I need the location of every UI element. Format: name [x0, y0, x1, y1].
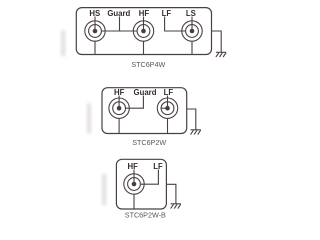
wire box 3 to earth: [166, 184, 176, 204]
connector HS (triax): [85, 21, 105, 41]
wire LF center pin tied to LF inner shield: [161, 107, 167, 109]
svg-text:HF: HF: [139, 9, 150, 18]
artifact ghost bar left of box 1: [61, 31, 65, 57]
wire HF label stem to center pin (box 2): [118, 96, 120, 109]
wire HF label stem to center pin: [143, 17, 145, 32]
connector HF (triax): [133, 21, 153, 41]
svg-text:Guard: Guard: [134, 88, 157, 97]
connector HF (box 2, triax): [109, 98, 129, 118]
svg-text:STC6P2W-B: STC6P2W-B: [125, 211, 166, 220]
svg-text:LF: LF: [153, 162, 163, 171]
wire LF label stem to HF inner shield (box 3): [140, 170, 158, 185]
ground symbol 1: [216, 52, 226, 57]
enclosure box STC6P2W: [102, 88, 187, 134]
svg-text:STC6P4W: STC6P4W: [131, 60, 165, 69]
svg-text:LS: LS: [186, 9, 196, 18]
svg-text:LF: LF: [164, 88, 174, 97]
enclosure box STC6P2W-B: [116, 159, 166, 209]
wire LF label stem to center pin (box 2): [167, 96, 169, 109]
wire HS outer shield to chassis: [94, 41, 96, 54]
wire Guard label stem to HF inner shield (box 2): [125, 96, 143, 109]
svg-text:HS: HS: [89, 9, 100, 18]
enclosure box STC6P4W: [76, 8, 211, 55]
svg-text:HF: HF: [114, 88, 125, 97]
ground symbol 3: [171, 204, 181, 209]
wire box 1 to earth: [212, 31, 222, 52]
svg-text:Guard: Guard: [107, 9, 130, 18]
ground symbol 2: [191, 130, 201, 135]
wire HF label stem to center pin (box 3): [133, 170, 135, 185]
connector LS (triax): [182, 21, 202, 41]
wire guard net HS inner shield to HF inner shield: [101, 30, 137, 32]
wire LS outer shield to chassis: [191, 41, 193, 54]
svg-text:HF: HF: [127, 162, 138, 171]
connector LF (box 2, triax): [157, 98, 177, 118]
wire HF outer shield to chassis: [143, 41, 145, 54]
wire HS label stem to center pin: [94, 17, 96, 32]
connector HF (box 3, triax): [124, 174, 144, 194]
svg-text:LF: LF: [162, 9, 172, 18]
wire box 2 to earth: [187, 109, 196, 130]
wire LF label stem to LS inner shield: [165, 17, 186, 32]
svg-text:STC6P2W: STC6P2W: [132, 138, 166, 147]
artifact ghost bar left of box 3: [102, 174, 106, 205]
wire LS label stem to center pin: [191, 17, 193, 32]
artifact ghost bar left of box 2: [87, 104, 91, 134]
wire LF outer shield to chassis (box 2): [167, 118, 169, 133]
wire Guard label stem: [119, 17, 121, 32]
wire HF outer shield to chassis (box 2): [118, 118, 120, 133]
wire HF outer shield to chassis (box 3): [133, 194, 135, 209]
